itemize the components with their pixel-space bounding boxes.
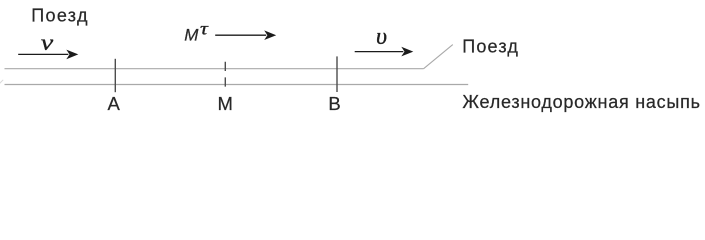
wire: diagonal leader to right train label	[424, 45, 453, 69]
node B tick	[336, 56, 338, 92]
node M dashed tick	[224, 62, 226, 88]
wire: bottom rail line	[5, 84, 469, 86]
svg-text:τ: τ	[200, 19, 209, 38]
node A tick	[114, 59, 116, 92]
svg-text:A: A	[108, 93, 121, 114]
svg-text:M: M	[184, 25, 199, 44]
svg-text:Железнодорожная насыпь: Железнодорожная насыпь	[462, 92, 700, 112]
svg-text:υ: υ	[376, 24, 387, 50]
wire: faint cropped leader at left edge	[0, 80, 3, 84]
svg-text:Поезд: Поезд	[31, 5, 89, 25]
arrow upsilon (right train velocity)	[355, 47, 414, 57]
wire: top rail line	[5, 68, 424, 70]
svg-text:M: M	[217, 93, 232, 114]
svg-text:B: B	[328, 93, 340, 114]
svg-text:ν: ν	[41, 29, 54, 55]
arrow M tau (midpoint motion)	[215, 30, 276, 40]
svg-text:Поезд: Поезд	[462, 36, 519, 56]
arrow v (left train velocity)	[18, 50, 78, 60]
